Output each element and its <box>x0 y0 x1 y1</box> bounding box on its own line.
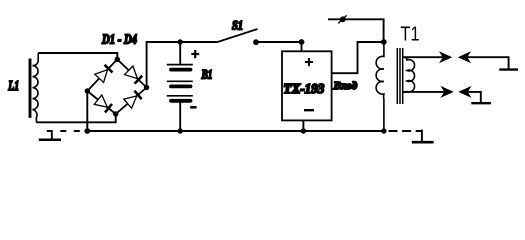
left ground dashed lead <box>47 130 88 132</box>
wire switch to TX junction <box>256 41 302 43</box>
arrow right (top output) <box>441 53 451 62</box>
node top (bridge) <box>115 57 120 62</box>
wire secondary top output <box>403 56 443 58</box>
node left (bridge) <box>85 88 90 93</box>
junction TX bottom <box>301 128 306 133</box>
wire L1 top to bridge top node <box>38 53 117 59</box>
arrow left (bottom plug) <box>460 88 470 97</box>
junction battery bottom <box>178 128 183 133</box>
battery B1 <box>167 42 193 131</box>
wire L1 bottom to bridge bottom node <box>36 114 115 122</box>
wire TX top lead <box>301 42 303 51</box>
junction TX top <box>299 39 305 45</box>
svg-text:T1: T1 <box>400 24 419 46</box>
arrow right (bottom output) <box>442 88 452 97</box>
junction T1 bottom <box>381 128 386 133</box>
bottom rail <box>87 130 384 132</box>
right ground bar <box>412 141 434 144</box>
wire top plug to terminal <box>467 57 509 69</box>
transformer T1 secondary <box>404 57 415 92</box>
diode D1 (left to top) <box>95 65 113 83</box>
wire bridge right node up to top rail <box>147 42 218 88</box>
diode D2 (top to right) <box>125 66 143 84</box>
junction rail left <box>84 128 90 134</box>
transformer T1 primary <box>376 42 384 131</box>
wire bottom plug to terminal <box>468 92 481 103</box>
switch S1 contact dot <box>253 39 259 45</box>
transformer T1 core <box>397 48 402 104</box>
diode D4 (bottom to right) <box>124 91 142 109</box>
svg-text:ТХ-193: ТХ-193 <box>283 81 324 96</box>
wire Vhod: box right edge to T1 input <box>332 42 384 73</box>
bridge rectifier D1-D4 frame <box>87 59 146 114</box>
inductor L1 <box>30 53 38 122</box>
diode D3 (left to bottom) <box>94 95 112 112</box>
battery plus sign <box>191 50 199 58</box>
terminal bar bottom <box>471 102 491 104</box>
svg-text:Вход: Вход <box>333 80 358 92</box>
junction battery top <box>178 39 183 44</box>
switch S1 lever <box>218 29 258 42</box>
radio TX-193 box <box>282 51 332 120</box>
TX plus sign <box>305 58 313 66</box>
right ground dashed lead <box>389 130 422 132</box>
battery minus sign <box>190 106 196 109</box>
tap dot <box>340 16 346 22</box>
terminal bar top <box>499 68 518 70</box>
TX minus sign <box>304 109 314 111</box>
node right (bridge) <box>144 85 149 90</box>
wire bridge left node down to bottom rail <box>86 91 88 131</box>
svg-text:L1: L1 <box>8 79 19 94</box>
wire TX bottom lead <box>302 120 304 131</box>
left ground bar <box>39 139 61 142</box>
svg-text:B1: B1 <box>201 66 213 81</box>
antenna wire with tap <box>328 15 384 42</box>
node bottom (bridge) <box>113 111 118 116</box>
junction T1 top <box>381 39 387 45</box>
svg-text:S1: S1 <box>232 18 243 33</box>
wire secondary bottom output <box>403 91 444 93</box>
svg-text:D1 - D4: D1 - D4 <box>101 33 137 48</box>
arrow left (top plug) <box>460 53 470 62</box>
